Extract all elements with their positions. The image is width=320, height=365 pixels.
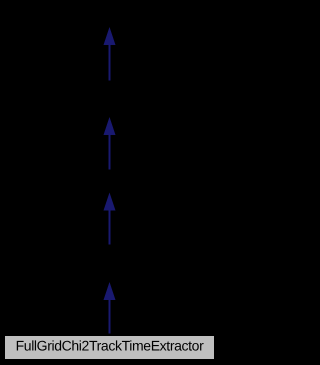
wire / inheritance arrow 1 bbox=[104, 27, 116, 81]
wire / inheritance arrow 4 bbox=[104, 282, 116, 334]
inheritance graph canvas bbox=[0, 0, 219, 365]
wire / inheritance arrow 3 bbox=[104, 193, 116, 245]
wire / inheritance arrow 2 bbox=[104, 117, 116, 170]
svg-text:FullGridChi2TrackTimeExtractor: FullGridChi2TrackTimeExtractor bbox=[16, 338, 204, 354]
node FullGridChi2TrackTimeExtractor bbox=[5, 336, 215, 360]
